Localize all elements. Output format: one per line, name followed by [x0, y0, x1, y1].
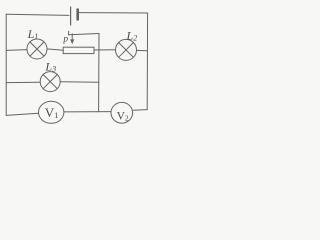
rheostat P body	[63, 47, 94, 53]
wire: L2 to right vertical	[137, 49, 148, 51]
wire: left vertical	[5, 14, 7, 115]
svg-text:V2: V2	[117, 111, 129, 123]
wire: top-left segment	[6, 14, 69, 15]
wire: bottom-right segment	[133, 109, 147, 112]
battery short plate	[76, 10, 79, 20]
wire: left lead of L3	[6, 81, 40, 83]
wire: L3 to middle vertical	[60, 81, 99, 83]
wire: left lead of L1	[6, 49, 27, 52]
wire: top-right segment	[79, 12, 148, 14]
svg-text:L3: L3	[44, 59, 56, 73]
svg-text:L1: L1	[27, 27, 39, 41]
wire: bottom middle	[64, 111, 111, 113]
rheostat slider arrow	[69, 31, 75, 44]
wire: slider tap horizontal	[69, 34, 99, 35]
svg-text:L2: L2	[126, 29, 138, 43]
wire: right vertical	[146, 13, 148, 110]
battery long plate	[70, 7, 72, 25]
svg-text:V1: V1	[45, 105, 58, 120]
lamp L2	[116, 39, 137, 60]
wire: middle vertical	[98, 34, 100, 112]
wire: rheostat to L2	[94, 49, 115, 51]
wire: bottom-left segment	[6, 113, 38, 115]
voltmeter V1	[39, 101, 64, 123]
wire: L1 to rheostat	[47, 49, 63, 50]
svg-text:p: p	[62, 35, 68, 45]
lamp L3	[40, 72, 60, 92]
voltmeter V2	[111, 102, 133, 123]
lamp L1	[27, 39, 47, 59]
